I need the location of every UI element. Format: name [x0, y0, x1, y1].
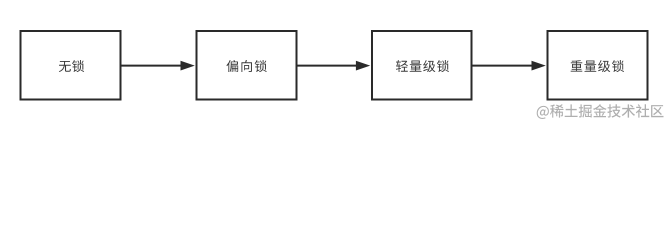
label 轻量级锁: [396, 60, 449, 72]
label 偏向锁: [226, 60, 266, 72]
label 重量级锁: [571, 60, 624, 72]
state box 偏向锁 (biased lock): [197, 31, 297, 100]
state box 轻量级锁 (lightweight lock): [372, 31, 472, 100]
state box 重量级锁 (heavyweight lock): [548, 31, 648, 100]
label 无锁: [59, 60, 84, 72]
arrow 轻量级锁→重量级锁: [473, 65, 534, 67]
watermark @稀土掘金技术社区: [537, 104, 664, 119]
arrow 偏向锁→轻量级锁: [298, 65, 358, 67]
arrow 无锁→偏向锁: [122, 65, 183, 67]
state box 无锁 (no lock): [21, 31, 121, 100]
